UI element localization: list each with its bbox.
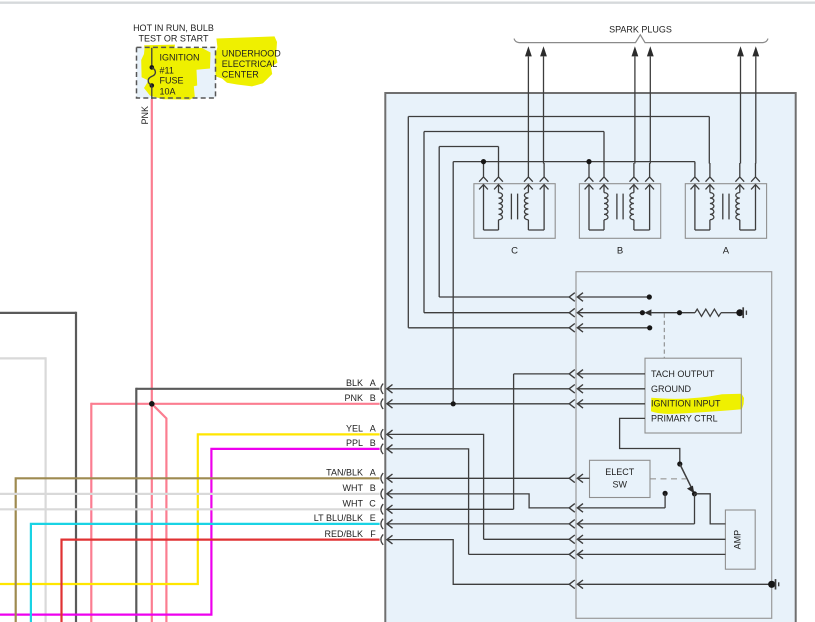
- svg-text:#11: #11: [160, 66, 174, 76]
- svg-text:A: A: [370, 468, 376, 478]
- svg-text:WHT: WHT: [343, 483, 364, 493]
- svg-text:PRIMARY CTRL: PRIMARY CTRL: [651, 414, 718, 424]
- svg-text:AMP: AMP: [732, 530, 742, 550]
- svg-text:PNK: PNK: [344, 393, 363, 403]
- svg-text:E: E: [370, 513, 376, 523]
- svg-text:PPL: PPL: [346, 438, 363, 448]
- svg-text:CENTER: CENTER: [222, 70, 260, 80]
- svg-text:B: B: [370, 438, 376, 448]
- svg-text:GROUND: GROUND: [651, 384, 691, 394]
- svg-text:YEL: YEL: [346, 424, 363, 434]
- svg-text:UNDERHOOD: UNDERHOOD: [222, 48, 282, 58]
- svg-text:ELECTRICAL: ELECTRICAL: [222, 59, 278, 69]
- svg-text:B: B: [370, 483, 376, 493]
- svg-text:BLK: BLK: [346, 378, 363, 388]
- svg-text:B: B: [617, 245, 623, 256]
- svg-text:10A: 10A: [160, 87, 176, 97]
- svg-text:IGNITION INPUT: IGNITION INPUT: [651, 399, 721, 409]
- svg-text:A: A: [723, 245, 730, 256]
- svg-text:TACH OUTPUT: TACH OUTPUT: [651, 369, 715, 379]
- svg-text:C: C: [369, 499, 376, 509]
- svg-text:C: C: [511, 245, 518, 256]
- svg-text:TEST OR START: TEST OR START: [138, 33, 209, 43]
- svg-text:FUSE: FUSE: [160, 76, 184, 86]
- svg-text:WHT: WHT: [343, 499, 364, 509]
- svg-text:IGNITION: IGNITION: [160, 53, 200, 63]
- svg-text:TAN/BLK: TAN/BLK: [326, 468, 363, 478]
- svg-text:ELECT: ELECT: [605, 467, 635, 477]
- svg-text:B: B: [370, 393, 376, 403]
- svg-text:F: F: [370, 529, 376, 539]
- svg-text:PNK: PNK: [140, 106, 150, 125]
- svg-text:SW: SW: [612, 480, 627, 490]
- svg-text:A: A: [370, 378, 376, 388]
- svg-text:LT BLU/BLK: LT BLU/BLK: [314, 513, 363, 523]
- svg-text:HOT IN RUN, BULB: HOT IN RUN, BULB: [133, 23, 214, 33]
- svg-text:A: A: [370, 424, 376, 434]
- svg-text:RED/BLK: RED/BLK: [324, 529, 363, 539]
- svg-text:SPARK PLUGS: SPARK PLUGS: [609, 24, 672, 34]
